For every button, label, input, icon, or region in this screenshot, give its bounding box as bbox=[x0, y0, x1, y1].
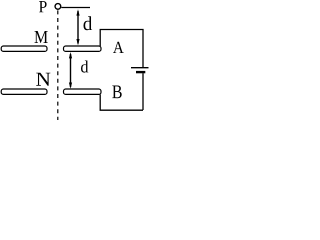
label d (top) bbox=[83, 16, 92, 30]
bottom wire to plate B bbox=[100, 95, 143, 111]
terminal circle at P bbox=[55, 4, 61, 10]
plate M bbox=[1, 46, 47, 51]
plate N bbox=[1, 89, 47, 94]
battery negative plate (short thick) bbox=[136, 71, 145, 73]
label N bbox=[36, 73, 50, 86]
plate A bbox=[64, 46, 102, 51]
battery positive plate (long) bbox=[131, 67, 149, 69]
dimension arrow d (between plates A and B), double-headed bbox=[69, 52, 72, 89]
dimension arrow d (top), double-headed bbox=[76, 9, 79, 45]
dashed beam line below P bbox=[57, 10, 59, 120]
label B bbox=[112, 85, 121, 98]
label M bbox=[34, 31, 47, 43]
label d (between plates A and B) bbox=[81, 60, 88, 72]
plate B bbox=[64, 89, 102, 94]
label P bbox=[39, 1, 47, 12]
label A bbox=[113, 42, 124, 53]
wire from plate A up and right to battery positive bbox=[100, 30, 143, 68]
wire from P terminal to the right bbox=[61, 7, 90, 9]
wire from battery negative down bbox=[142, 73, 144, 110]
